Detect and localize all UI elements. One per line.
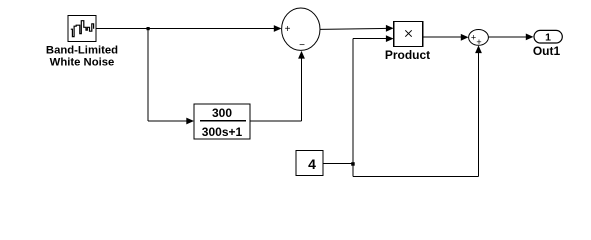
- svg-text:Band-Limited: Band-Limited: [46, 45, 118, 57]
- svg-text:+: +: [285, 24, 291, 35]
- junction on noise wire: [147, 27, 150, 30]
- wire sum1 to product: [320, 28, 387, 29]
- wire constant to junction: [323, 163, 353, 165]
- sum block 1: [282, 8, 320, 51]
- svg-text:1: 1: [545, 32, 551, 44]
- arrowhead into product input 2: [386, 35, 394, 42]
- sum block 2: [469, 30, 489, 47]
- svg-text:300: 300: [212, 106, 232, 120]
- arrowhead into sum1 left: [274, 25, 282, 32]
- wire junction down and right to sum2 bottom: [353, 50, 479, 176]
- block Transfer Fcn 300/(300s+1): [194, 104, 250, 139]
- wire noise to sum1: [96, 28, 276, 30]
- arrowhead into transfer fn: [186, 118, 194, 125]
- arrowhead into sum2 bottom: [475, 45, 482, 53]
- svg-text:White Noise: White Noise: [50, 57, 115, 69]
- block Product: [394, 22, 423, 47]
- svg-text:Product: Product: [385, 48, 430, 62]
- arrowhead into sum1 bottom: [298, 51, 305, 59]
- arrowhead into product input 1: [386, 25, 394, 32]
- svg-text:−: −: [299, 40, 305, 51]
- svg-text:+: +: [471, 32, 476, 42]
- junction dot on constant wire: [351, 162, 355, 166]
- svg-text:4: 4: [308, 156, 316, 172]
- wire junction down to transfer fn: [148, 29, 188, 122]
- svg-text:+: +: [476, 37, 481, 47]
- wire sum2 to out1: [488, 36, 526, 38]
- svg-text:Out1: Out1: [533, 44, 561, 58]
- block Band-Limited White Noise: [68, 16, 96, 42]
- wire product to sum2: [423, 36, 462, 38]
- label Band-Limited White Noise: [46, 45, 118, 69]
- outport block Out1: [534, 30, 562, 43]
- arrowhead into sum2 left: [461, 34, 469, 41]
- arrowhead into out1: [526, 34, 534, 41]
- svg-text:300s+1: 300s+1: [202, 125, 243, 139]
- wire constant branch up to product input 2: [353, 39, 387, 164]
- block Constant 4: [296, 151, 323, 176]
- wire transfer fn to sum1 bottom: [250, 56, 302, 121]
